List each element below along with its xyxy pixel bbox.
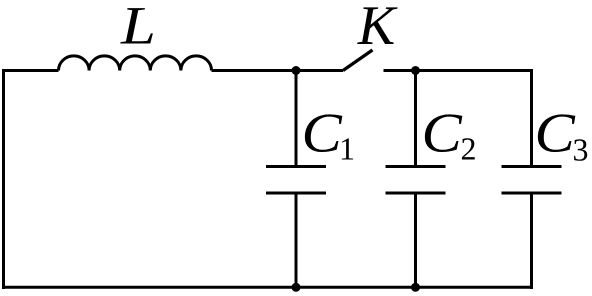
wire: left side [2,69,5,289]
label L (value label of inductor) [120,8,153,43]
node B: junction dot at top of C2 [411,66,420,75]
wire: inductor to node A [212,69,297,72]
label K (switch designator) [357,7,397,44]
capacitor C3: top plate [502,165,562,168]
switch K: open arm blade [343,50,373,71]
label C1: letter C [305,114,342,152]
capacitor C2: top plate [386,165,446,168]
wire: top-left lead from left corner to inductor [2,69,59,72]
wire: switch right contact to node B [384,69,416,72]
label C2: letter C [425,114,462,152]
wire: C2 lower lead [414,195,417,289]
wire: right side lower lead of C3 to bottom-right corner [530,195,533,290]
capacitor C3: bottom plate [502,192,562,195]
wire: bottom rail [2,286,533,289]
wire: C1 lower lead [295,195,298,289]
label C3: subscript 3 [574,139,587,161]
node: bottom junction of C1 [292,283,301,292]
capacitor C1: top plate [266,165,326,168]
label C1: subscript 1 [342,138,353,159]
node: bottom junction of C2 [411,283,420,292]
wire: node B to top-right corner [416,69,534,72]
wire: C2 upper lead [414,71,417,166]
label C2: subscript 2 [462,138,475,159]
node A: junction dot at top of C1 [292,66,301,75]
inductor L (5 semicircular humps) [59,56,212,71]
capacitor C2: bottom plate [386,192,446,195]
wire: C1 upper lead [295,71,298,166]
label C3: letter C [538,114,575,152]
wire: node A to switch pivot [296,69,343,72]
wire: right side upper lead of C3 [530,69,533,165]
capacitor C1: bottom plate [266,192,326,195]
